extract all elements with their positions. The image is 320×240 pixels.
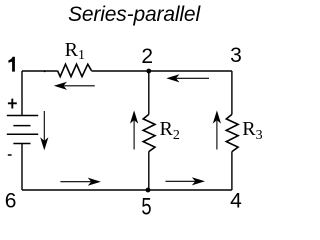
svg-text:6: 6 xyxy=(5,190,17,213)
current arrow bottom left (right) xyxy=(60,178,101,186)
resistor R2 xyxy=(143,114,155,151)
junction node 5 xyxy=(146,188,151,193)
wire middle upper (node 2 to R2) xyxy=(148,71,150,114)
wire overlap nub on top wire xyxy=(44,70,46,72)
current arrow top right (left, node 3 to node 2) xyxy=(166,74,209,82)
svg-text:4: 4 xyxy=(230,190,242,213)
current arrow under R1 (left) xyxy=(54,82,95,90)
svg-text:3: 3 xyxy=(230,44,242,67)
current arrow bottom middle (right) xyxy=(166,177,206,185)
wire bottom (node 6 to node 4) xyxy=(22,189,232,191)
current arrow battery (down) xyxy=(40,111,48,150)
svg-text:5: 5 xyxy=(141,194,151,220)
wire top (node 1 to node 3) xyxy=(22,70,232,72)
wire left (node 1 down to battery) xyxy=(21,71,23,115)
wire middle lower (R2 to node 5) xyxy=(148,152,150,190)
battery xyxy=(7,116,38,144)
svg-text:Series-parallel: Series-parallel xyxy=(68,3,201,26)
wire left lower (battery to node 6) xyxy=(21,144,23,190)
current arrow beside R2 (up) xyxy=(130,110,138,149)
resistor R3 xyxy=(226,114,238,151)
battery - terminal xyxy=(8,154,12,156)
battery + terminal xyxy=(8,99,17,109)
resistor R1 xyxy=(58,64,92,76)
wire right lower (R3 to node 4) xyxy=(231,152,233,190)
current arrow beside R3 (up) xyxy=(213,110,221,149)
wire right upper (node 3 to R3) xyxy=(231,71,233,114)
svg-text:2: 2 xyxy=(141,45,153,68)
junction node 2 xyxy=(146,69,151,74)
node 1 label xyxy=(8,57,15,72)
